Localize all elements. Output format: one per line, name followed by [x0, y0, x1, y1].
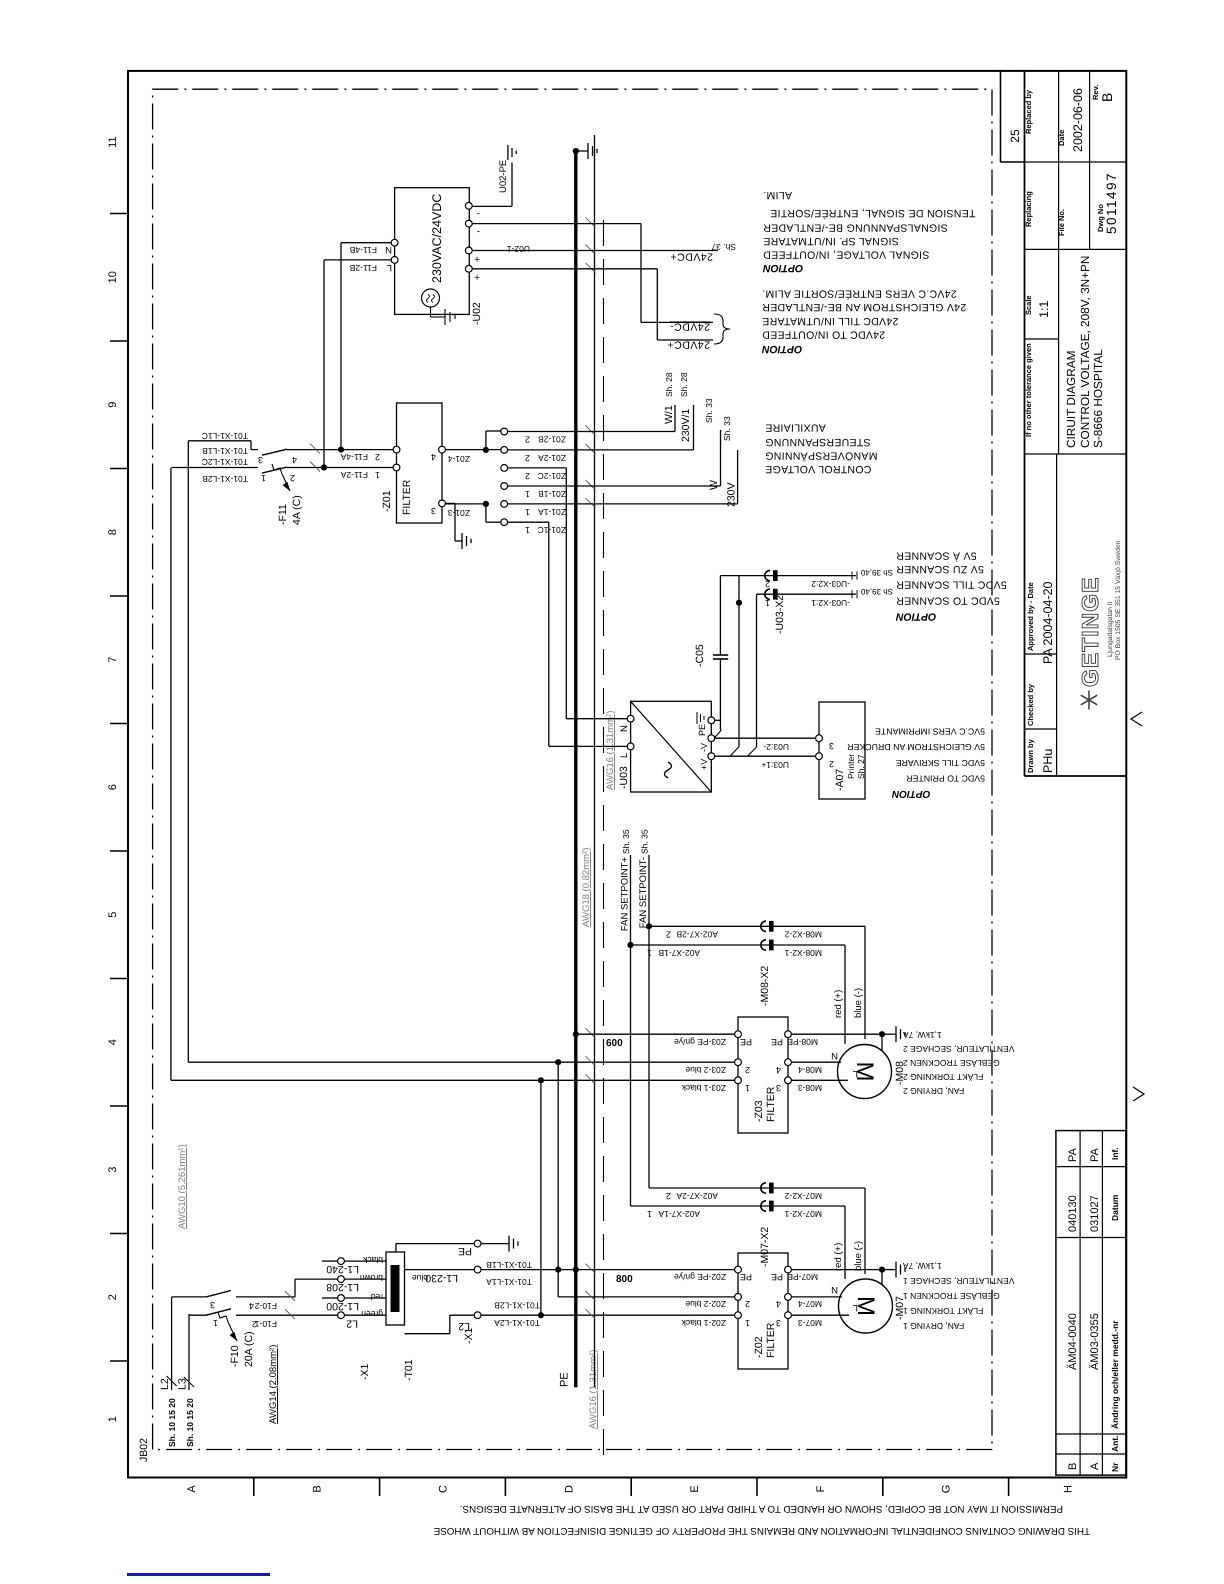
svg-text:-C05: -C05: [694, 644, 706, 667]
svg-text:PE: PE: [740, 1272, 752, 1282]
Z01-1C hook wire: [445, 503, 486, 505]
M08 PE wire down: [791, 1033, 882, 1035]
wire 24VDC minus out: [472, 223, 641, 225]
svg-text:+V: +V: [699, 759, 709, 770]
svg-text:PERMISSION IT MAY NOT BE COPIE: PERMISSION IT MAY NOT BE COPIED, SHOWN O…: [460, 1503, 1063, 1514]
grid row ticks left: [253, 1478, 255, 1497]
svg-text:FLÄKT TORKNING 2: FLÄKT TORKNING 2: [903, 1072, 984, 1082]
T01 secondary L1-230 lead: [405, 1269, 475, 1271]
svg-text:4: 4: [249, 1301, 254, 1311]
svg-text:N: N: [831, 1050, 838, 1061]
svg-text:Sh. 33: Sh. 33: [704, 398, 714, 423]
svg-text:4A (C): 4A (C): [291, 495, 303, 525]
svg-text:1: 1: [525, 489, 530, 499]
U03 AC wave symbol: [665, 762, 672, 778]
svg-text:PE: PE: [771, 1037, 783, 1047]
Z03 pin1 top circle: [735, 1077, 742, 1084]
M08 L wire: [791, 1079, 848, 1081]
svg-text:AWG18 (0.82mm²): AWG18 (0.82mm²): [581, 848, 592, 927]
X1 terminal L1-240 stub: [322, 1260, 338, 1262]
svg-text:M08-PE: M08-PE: [787, 1037, 818, 1047]
wire Z01-1A to 230V: [508, 503, 738, 505]
Z01 pin3 circle: [439, 500, 446, 507]
wire L2 entry: [171, 1297, 173, 1390]
svg-text:AWG16 (1.31mm²): AWG16 (1.31mm²): [588, 1350, 599, 1429]
svg-text:+: +: [474, 253, 480, 264]
T01 secondary L2 lead: [405, 1333, 450, 1335]
breaker F11 pole 2 lower lead: [287, 449, 397, 451]
wire 24VDC+ Sh37: [472, 250, 718, 252]
svg-text:230V/1: 230V/1: [680, 409, 692, 442]
svg-text:Date: Date: [1057, 130, 1066, 146]
svg-text:FAN SETPOINT-: FAN SETPOINT-: [638, 857, 649, 928]
svg-text:Drawn by: Drawn by: [1026, 738, 1035, 773]
gauge slash F10-1: [285, 1309, 295, 1319]
title block row divider Y1089: [1089, 71, 1091, 249]
svg-text:-U02: -U02: [471, 302, 483, 325]
riser blue to Z02 pin2: [558, 1296, 738, 1298]
svg-text:L1-240: L1-240: [326, 1263, 359, 1275]
F11 upper lead pole 1: [172, 467, 258, 469]
svg-text:M07-4: M07-4: [798, 1299, 822, 1309]
svg-text:M08-X2-2: M08-X2-2: [784, 930, 822, 940]
Z01 pin3 earth wire: [445, 502, 455, 504]
title block divider X1245 scale cell: [1025, 338, 1059, 340]
wire L1 horizontal mid: [557, 1062, 559, 1297]
svg-text:3: 3: [210, 1300, 215, 1310]
transformer T01 box: [386, 1252, 405, 1325]
svg-text:FILTER: FILTER: [765, 1086, 777, 1122]
title block divider X1334: [1025, 248, 1127, 250]
svg-text:Z03-PE gn/ye: Z03-PE gn/ye: [674, 1037, 726, 1047]
svg-text:L1-208: L1-208: [326, 1281, 359, 1293]
breaker F11 trip hook: [272, 464, 282, 474]
svg-text:7: 7: [107, 657, 119, 663]
svg-text:L: L: [619, 753, 630, 758]
svg-text:FLÄKT TORKNING 1: FLÄKT TORKNING 1: [903, 1306, 984, 1316]
sheet 25 box: [1000, 71, 1002, 162]
svg-text:B: B: [1099, 93, 1115, 102]
svg-text:VENTILATEUR, SECHAGE 1: VENTILATEUR, SECHAGE 1: [903, 1276, 1015, 1286]
junction L2 riser: [538, 1077, 544, 1083]
svg-text:24VDC TO IN/OUTFEED: 24VDC TO IN/OUTFEED: [762, 329, 885, 341]
L2 entry tick: [167, 1376, 177, 1386]
svg-text:-F11: -F11: [277, 504, 289, 525]
svg-text:FAN, DRYING 2: FAN, DRYING 2: [903, 1086, 965, 1096]
svg-text:blue (-): blue (-): [853, 1241, 864, 1271]
Z03 pin2 top circle: [735, 1059, 742, 1066]
svg-text:1: 1: [213, 1318, 218, 1328]
tap L2 wire green: [344, 1314, 386, 1316]
capacitor C05 plates: [713, 658, 728, 660]
svg-text:Z03-1 black: Z03-1 black: [681, 1083, 726, 1093]
U02 L riser: [324, 259, 391, 261]
junction F11-4 riser U02 N: [338, 447, 344, 453]
fan setpoint minus wire: [648, 855, 650, 1188]
filter Z02 box: [738, 1253, 788, 1369]
svg-text:800: 800: [616, 1274, 633, 1285]
svg-text:-U03-X2: -U03-X2: [774, 595, 786, 634]
svg-text:U03:1+: U03:1+: [761, 760, 789, 770]
svg-text:U02-1: U02-1: [507, 244, 530, 254]
U02 pin minus2 circle: [465, 202, 472, 209]
svg-text:Sh. 10 15 20: Sh. 10 15 20: [167, 1398, 177, 1447]
fold mark bottom chevron down: [1133, 1087, 1144, 1101]
svg-text:OPTION: OPTION: [891, 788, 930, 799]
U03 minusV pin circle: [708, 735, 715, 742]
breaker F11 pole 1 lower lead: [287, 467, 397, 469]
U02 PE wire: [472, 205, 512, 207]
svg-text:20A (C): 20A (C): [243, 1331, 255, 1367]
M07 blue wire: [864, 1188, 866, 1274]
svg-text:PE: PE: [697, 724, 707, 736]
svg-text:SIGNAL VOLTAGE, IN/OUTFEED: SIGNAL VOLTAGE, IN/OUTFEED: [763, 249, 929, 261]
riser T01-L1A to Z02 PE: [481, 1269, 738, 1271]
wire T01-X1-L1B to F11 pin3: [187, 441, 189, 1062]
svg-text:M07-X2-1: M07-X2-1: [784, 1209, 822, 1219]
tap L1-240 wire black: [344, 1260, 386, 1262]
wire Z01-2B to W/1: [508, 431, 675, 433]
T01-X1 L2 terminal circle: [474, 1312, 481, 1319]
M07 red wire: [844, 1206, 846, 1279]
svg-text:H: H: [1063, 1485, 1075, 1493]
svg-text:SIGNAL SP. IN/UTMATARE: SIGNAL SP. IN/UTMATARE: [763, 235, 899, 247]
X1 terminal L1-208 circle: [338, 1276, 345, 1283]
Z03 pin PE top circle: [735, 1031, 742, 1038]
T01 PE terminal circle: [474, 1240, 481, 1247]
svg-text:Sh. 37: Sh. 37: [711, 242, 736, 252]
Z03 pin4 bottom circle: [785, 1059, 792, 1066]
svg-text:3: 3: [258, 455, 263, 465]
svg-text:L: L: [387, 262, 392, 273]
svg-text:4: 4: [776, 1299, 781, 1309]
X1 terminal L1-200 stub: [322, 1297, 338, 1299]
JB02 cabinet dash-dot boundary: [153, 89, 992, 1449]
gauge slash F10-2: [285, 1291, 295, 1301]
svg-text:SIGNALSPANNUNG BE-/ENTLADER: SIGNALSPANNUNG BE-/ENTLADER: [763, 222, 948, 234]
junction M08-X2-1: [627, 942, 633, 948]
X2:2 feed wire: [730, 747, 739, 757]
fan setpoint plus wire: [630, 855, 632, 1206]
Z01 terminal 1A circle: [501, 501, 508, 508]
svg-text:D: D: [563, 1485, 575, 1493]
svg-text:031027: 031027: [1089, 1195, 1101, 1232]
svg-text:2: 2: [829, 759, 834, 769]
connector M08-X2-1: [761, 940, 766, 950]
svg-text:2: 2: [107, 1294, 119, 1300]
wire M07-X2-2: [649, 1187, 865, 1189]
wire 24VDC plus out: [472, 268, 657, 270]
svg-text:ALIM.: ALIM.: [763, 189, 792, 201]
connector M08-X2-2: [761, 921, 766, 931]
24VDC pair brace: [714, 314, 730, 344]
X1 terminal L1-240 circle: [338, 1258, 345, 1265]
svg-text:Sh. 35: Sh. 35: [640, 829, 650, 854]
M07 L wire: [791, 1314, 849, 1316]
svg-text:M: M: [852, 1296, 879, 1316]
svg-text:Z01-1A: Z01-1A: [538, 507, 566, 517]
svg-text:red (+): red (+): [833, 990, 844, 1018]
filter Z01 box: [397, 403, 443, 523]
svg-text:-Z02: -Z02: [753, 1336, 765, 1358]
svg-text:24VDC TILL IN/UTMATARE: 24VDC TILL IN/UTMATARE: [762, 315, 898, 327]
svg-text:B: B: [312, 1485, 324, 1492]
svg-text:4: 4: [431, 452, 436, 462]
svg-text:A02-X7-2A: A02-X7-2A: [676, 1191, 718, 1201]
wire M07-X2-1: [631, 1205, 846, 1207]
svg-text:A02-X7-1B: A02-X7-1B: [658, 948, 700, 958]
junction PE bus right end: [573, 148, 579, 154]
svg-text:PE: PE: [458, 1245, 472, 1257]
U02 internal transformer circle: [422, 289, 440, 307]
svg-text:1: 1: [745, 1083, 750, 1093]
svg-text:24VDC+: 24VDC+: [670, 251, 713, 263]
svg-text:Inf.: Inf.: [1110, 1147, 1120, 1160]
title block left cells dividers: [1025, 728, 1057, 730]
svg-text:1,1kW, 7A: 1,1kW, 7A: [903, 1030, 942, 1040]
svg-text:5VDC TILL SCANNER: 5VDC TILL SCANNER: [896, 579, 1007, 591]
U03 PE pin circle: [708, 717, 715, 724]
U02 N riser: [341, 242, 391, 244]
motor M07 circle: [839, 1279, 893, 1333]
connector M07-X2-2: [761, 1183, 766, 1193]
svg-text:THIS DRAWING CONTAINS CONFIDEN: THIS DRAWING CONTAINS CONFIDENTIAL INFOR…: [433, 1525, 1090, 1536]
svg-text:A02-X7-1A: A02-X7-1A: [658, 1209, 700, 1219]
svg-text:FAN, DRYING 1: FAN, DRYING 1: [903, 1321, 965, 1331]
junction L1A at PE bus: [573, 1267, 579, 1273]
M08 red wire: [844, 945, 846, 1044]
svg-text:GEBLÄSE TROCKNEN 2: GEBLÄSE TROCKNEN 2: [903, 1058, 1000, 1068]
svg-text:black: black: [362, 1255, 383, 1265]
X1 terminal L1-200 circle: [338, 1295, 345, 1302]
svg-text:9: 9: [107, 402, 119, 408]
svg-text:T01-X1-L1B: T01-X1-L1B: [202, 446, 248, 456]
svg-text:F11-4B: F11-4B: [349, 245, 377, 255]
svg-text:-M08-X2: -M08-X2: [759, 966, 771, 1006]
svg-text:Z01-2A: Z01-2A: [538, 453, 566, 463]
svg-text:B: B: [1067, 1463, 1079, 1470]
svg-text:FILTER: FILTER: [401, 479, 413, 515]
revision table outline: [1056, 1131, 1126, 1476]
svg-text:1: 1: [375, 470, 380, 480]
U02 PE earth: [507, 145, 509, 160]
breaker F10 pole 2 blade: [206, 1291, 231, 1297]
T01 PE lead: [395, 1244, 397, 1252]
svg-text:blue (-): blue (-): [853, 988, 864, 1018]
gauge slash F11 wires: [310, 444, 320, 454]
svg-text:5V ZU SCANNER: 5V ZU SCANNER: [896, 563, 984, 575]
PE bus end earth: [578, 150, 589, 152]
svg-text:Sh. 28: Sh. 28: [679, 372, 689, 397]
svg-text:M: M: [851, 1062, 878, 1082]
printer A07 box: [819, 702, 865, 799]
svg-text:Scale: Scale: [1024, 295, 1033, 315]
U03 diagonal: [631, 701, 712, 792]
connector X2:2: [765, 570, 770, 580]
svg-text:T01-X1-L1A: T01-X1-L1A: [486, 1277, 532, 1287]
svg-text:CIRUIT DIAGRAM: CIRUIT DIAGRAM: [1064, 351, 1078, 448]
svg-text:green: green: [361, 1309, 383, 1319]
X2:1 feed wire: [748, 747, 757, 756]
svg-text:3: 3: [431, 506, 436, 516]
M07 PE wire down: [791, 1269, 882, 1271]
svg-text:2: 2: [745, 1299, 750, 1309]
junction L2 at black wire: [538, 1312, 544, 1318]
svg-text:Ljungadalsgatan II: Ljungadalsgatan II: [1107, 601, 1114, 657]
breaker F10 pole 2 lower lead: [236, 1296, 295, 1298]
svg-text:-U03: -U03: [618, 766, 630, 789]
svg-text:2: 2: [666, 930, 671, 940]
Z01 terminal 1B circle: [501, 483, 508, 490]
U02 pin L circle: [391, 257, 398, 264]
svg-text:CONTROL VOLTAGE: CONTROL VOLTAGE: [765, 463, 871, 475]
breaker F10 pole 1 upper lead: [189, 1314, 206, 1316]
svg-text:3: 3: [776, 1083, 781, 1093]
X2:2 end ticks: [851, 572, 853, 580]
svg-text:Replacing: Replacing: [1024, 191, 1033, 227]
svg-text:-X1: -X1: [359, 1364, 371, 1381]
svg-text:GEBLÄSE TROCKNEN 1: GEBLÄSE TROCKNEN 1: [903, 1291, 1000, 1301]
svg-text:2: 2: [290, 473, 295, 483]
Z01 pin3 earth: [461, 533, 463, 549]
riser L2 net down: [171, 1079, 738, 1081]
Z03 pin PE bottom circle: [785, 1031, 792, 1038]
wire L3 entry: [188, 1314, 190, 1390]
svg-text:Approved by - Date: Approved by - Date: [1026, 582, 1035, 651]
svg-text:OPTION: OPTION: [896, 610, 937, 622]
svg-text:Z01-2C: Z01-2C: [538, 471, 566, 481]
svg-text:-: -: [477, 208, 480, 219]
svg-text:5: 5: [107, 912, 119, 918]
svg-text:F11-4A: F11-4A: [340, 452, 368, 462]
svg-text:Sh 39,40: Sh 39,40: [860, 587, 893, 596]
svg-text:Ant.: Ant.: [1110, 1435, 1120, 1452]
junction M08-X2-2: [646, 923, 652, 929]
svg-text:5VC.C VERS IMPRIMANTE: 5VC.C VERS IMPRIMANTE: [875, 727, 985, 737]
riser L1 net down: [188, 1061, 738, 1063]
svg-text:PE: PE: [771, 1272, 783, 1282]
svg-text:Z01-4: Z01-4: [448, 454, 470, 464]
title block row divider Y1058: [1058, 71, 1060, 454]
svg-text:24VDC-: 24VDC-: [670, 321, 710, 333]
svg-text:blue: blue: [412, 1273, 428, 1283]
wire M08-X2-1: [631, 944, 846, 946]
svg-text:M08-3: M08-3: [798, 1083, 822, 1093]
svg-text:If no other tolerance given: If no other tolerance given: [1024, 343, 1033, 437]
svg-text:Datum: Datum: [1110, 1194, 1120, 1221]
X2:2 wire down: [720, 575, 855, 577]
svg-text:-A07: -A07: [834, 769, 846, 791]
svg-text:FILTER: FILTER: [765, 1322, 777, 1358]
connector X2:1: [765, 589, 770, 599]
svg-text:-: -: [477, 226, 480, 237]
minusV diagonal to C05 wire: [714, 730, 721, 738]
svg-text:PHu: PHu: [1041, 749, 1055, 773]
svg-text:1: 1: [647, 1209, 652, 1219]
svg-text:Z02-1 black: Z02-1 black: [681, 1318, 726, 1328]
U02 box: [395, 188, 470, 315]
svg-text:5VDC TILL SKRIVARE: 5VDC TILL SKRIVARE: [896, 758, 985, 768]
X2:1 end ticks: [851, 590, 853, 598]
svg-text:F10-2: F10-2: [255, 1301, 277, 1311]
tap L1-208 wire brown: [344, 1278, 386, 1280]
breaker F11 pole 1 blade: [262, 467, 287, 473]
Z01 pin1 circle: [393, 464, 400, 471]
svg-text:PE: PE: [559, 1372, 571, 1387]
svg-text:Z02-2 blue: Z02-2 blue: [685, 1299, 726, 1309]
U03 N pin circle: [627, 715, 634, 722]
Z01 pin4 circle: [439, 446, 446, 453]
svg-text:Sh. 27: Sh. 27: [856, 754, 866, 779]
svg-text:G: G: [941, 1485, 953, 1494]
svg-text:1: 1: [107, 1416, 119, 1422]
svg-text:600: 600: [606, 1038, 623, 1049]
svg-text:1: 1: [525, 525, 530, 535]
svg-text:AWG16 (1.31mm²): AWG16 (1.31mm²): [605, 711, 616, 790]
junction Z01-1C hook: [483, 501, 489, 507]
title block divider X1422: [1025, 161, 1127, 163]
U03 box: [631, 701, 712, 792]
svg-text:Sh. 10 15 20: Sh. 10 15 20: [185, 1398, 195, 1447]
wire gauge boundary dashed line: [603, 210, 605, 1455]
riser plusV to A07 pin2: [715, 755, 816, 757]
Z02 pin2 top circle: [735, 1294, 742, 1301]
U03 L riser: [549, 745, 627, 747]
svg-text:2: 2: [525, 435, 530, 445]
svg-text:L1-230: L1-230: [425, 1272, 458, 1284]
svg-text:24VDC+: 24VDC+: [667, 339, 710, 351]
M07 N wire: [791, 1296, 842, 1298]
svg-text:F11-2B: F11-2B: [349, 263, 377, 273]
svg-text:STEUERSPANNUNG: STEUERSPANNUNG: [765, 436, 871, 448]
svg-text:W: W: [708, 480, 720, 490]
junction M08 PE: [879, 1031, 885, 1037]
svg-text:1: 1: [647, 948, 652, 958]
connector M07-X2-1: [761, 1201, 766, 1211]
tap L1-200 wire red: [344, 1297, 386, 1299]
svg-text:Sh. 33: Sh. 33: [722, 416, 732, 441]
svg-text:OPTION: OPTION: [762, 343, 803, 355]
Z01 terminal 2B circle: [501, 428, 508, 435]
wire Z03 PE from bus: [578, 1033, 735, 1035]
junction L1 riser: [555, 1059, 561, 1065]
svg-text:Sh. 28: Sh. 28: [664, 372, 674, 397]
transformer T01 winding bar: [391, 1265, 400, 1312]
X1 terminal L2 circle: [338, 1312, 345, 1319]
svg-text:Sh. 35: Sh. 35: [621, 829, 631, 854]
svg-text:A: A: [186, 1485, 198, 1493]
svg-text:U02-PE: U02-PE: [498, 160, 509, 193]
svg-text:F11-2A: F11-2A: [340, 470, 368, 480]
svg-text:red: red: [370, 1292, 383, 1302]
Z01 terminal 2A circle: [501, 447, 508, 454]
svg-text:File No.: File No.: [1057, 209, 1066, 236]
svg-text:Printer: Printer: [846, 754, 856, 779]
svg-text:F10-1: F10-1: [255, 1319, 277, 1329]
breaker F10 pole 1 blade: [206, 1309, 231, 1315]
svg-text:1:1: 1:1: [1037, 301, 1051, 318]
svg-text:4: 4: [107, 1039, 119, 1045]
svg-text:N: N: [385, 244, 392, 255]
breaker F10 trip arrow: [228, 1322, 237, 1341]
Z02 pin4 bottom circle: [785, 1294, 792, 1301]
svg-text:Z03-2 blue: Z03-2 blue: [685, 1065, 726, 1075]
svg-text:M07-PE: M07-PE: [787, 1272, 818, 1282]
svg-text:PE: PE: [740, 1037, 752, 1047]
svg-text:2002-06-06: 2002-06-06: [1071, 88, 1085, 152]
svg-text:2: 2: [745, 1065, 750, 1075]
wire L2 horizontal mid: [540, 1080, 542, 1315]
